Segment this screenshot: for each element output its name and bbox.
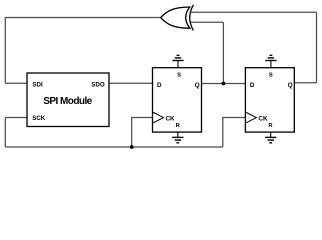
wire: Q of U1 to D of U2 [202, 83, 246, 85]
wire: SDO to D of U1 [109, 82, 153, 84]
wire: XOR output to left (net to SDI) [5, 17, 160, 19]
wire: SCK pin to left [5, 117, 27, 119]
svg-text:CK: CK [258, 115, 268, 122]
wire: left vertical feedback [4, 17, 6, 83]
wire: XOR lower input horizontal [190, 21, 223, 23]
ground at R of U2 [265, 132, 276, 143]
wire: into SDI pin [5, 82, 27, 84]
XOR gate (mirrored, pointing left) [161, 5, 194, 31]
wire: clock riser to CK of U2 [223, 118, 246, 148]
ground at S of U1 [172, 55, 183, 67]
junction on clock bus [130, 145, 134, 149]
wire: bottom clock bus [5, 146, 223, 148]
svg-text:D: D [250, 82, 255, 89]
wire: XOR upper input horizontal [190, 11, 317, 13]
SPI Module block [27, 73, 109, 127]
clock edge triangle U1 [153, 112, 164, 123]
ground at S of U2 [265, 55, 276, 67]
svg-text:SCK: SCK [32, 115, 46, 122]
svg-text:S: S [177, 72, 181, 78]
wire: clock branch riser to CK of U1 [132, 118, 153, 148]
clock edge triangle U2 [245, 112, 256, 123]
svg-text:Q: Q [195, 82, 200, 89]
D flip-flop U1 [153, 68, 202, 132]
wire: SCK left vertical drop [4, 118, 6, 148]
svg-text:SDO: SDO [91, 82, 105, 89]
svg-text:D: D [157, 82, 162, 89]
svg-text:SPI Module: SPI Module [43, 96, 92, 107]
junction on Q1 net to XOR input [222, 82, 226, 86]
ground at R of U1 [172, 132, 183, 143]
svg-text:SDI: SDI [32, 82, 43, 89]
svg-text:S: S [269, 72, 273, 78]
D flip-flop U2 [245, 68, 294, 132]
wire: XOR lower input vertical drop to Q1 net [222, 22, 224, 83]
svg-text:Q: Q [288, 82, 293, 89]
wire: Q of U2 to right vertical [294, 82, 316, 84]
svg-text:CK: CK [166, 115, 176, 122]
wire: right vertical from Q2 up [316, 12, 318, 83]
